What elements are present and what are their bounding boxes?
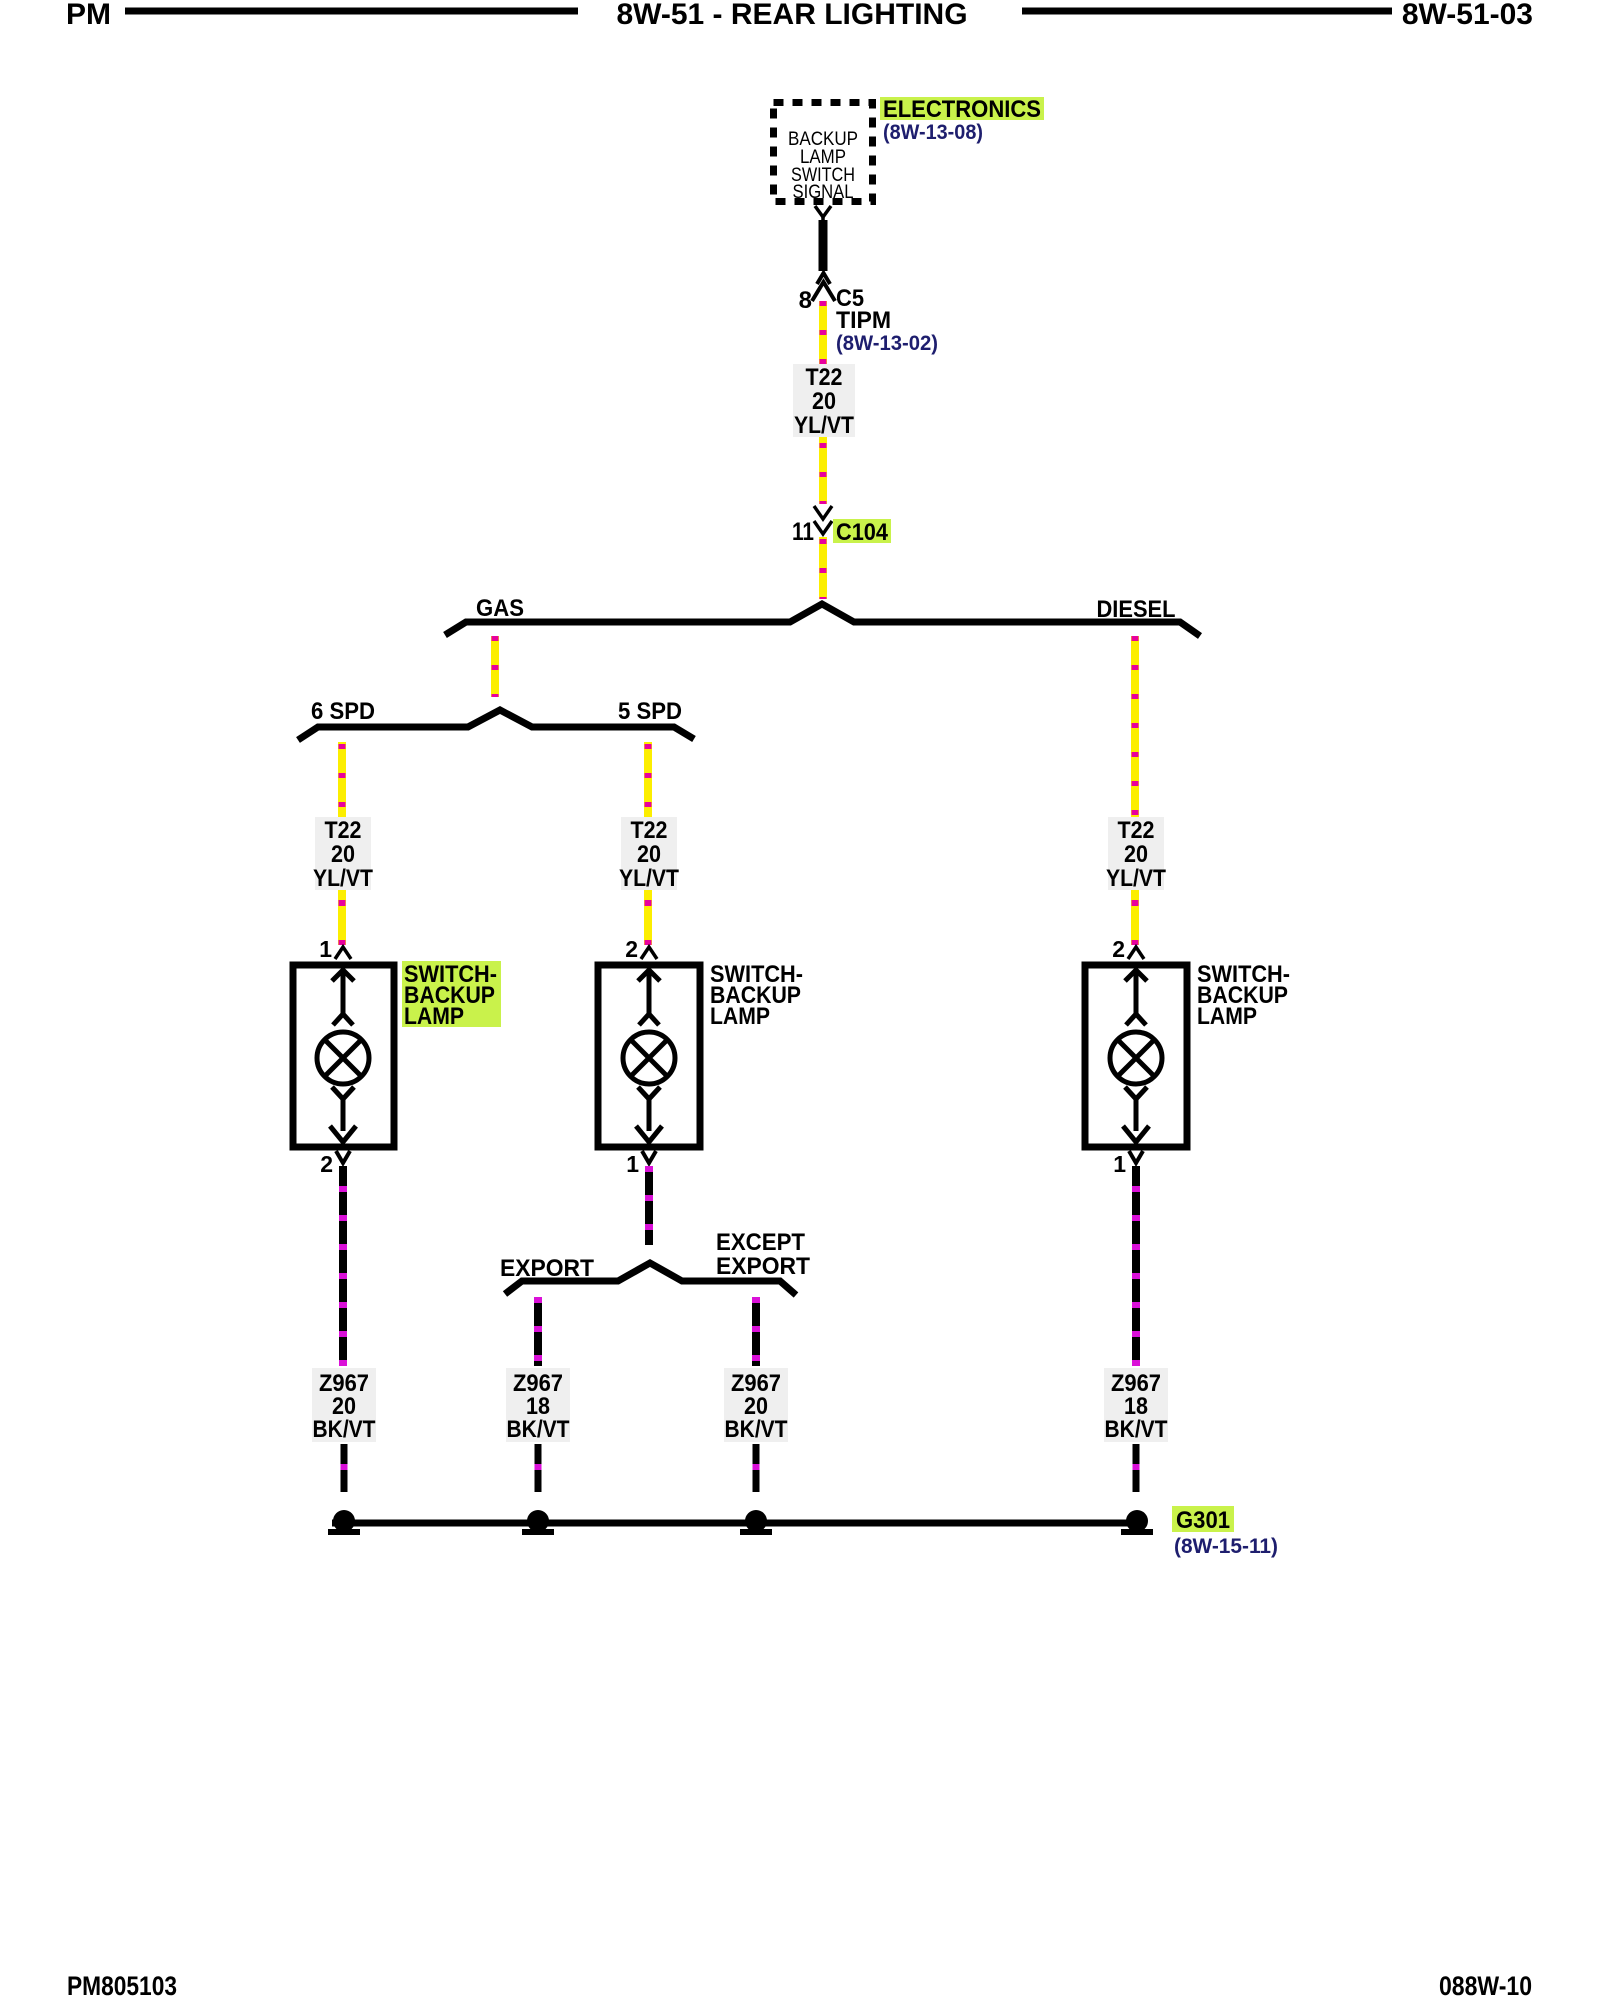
wire BK/VT from left lamp down xyxy=(339,1166,347,1366)
svg-text:ELECTRONICS: ELECTRONICS xyxy=(883,96,1041,123)
svg-text:GAS: GAS xyxy=(476,595,524,622)
svg-text:8W-51 - REAR LIGHTING: 8W-51 - REAR LIGHTING xyxy=(616,0,967,31)
wire YL/VT into left lamp xyxy=(338,890,346,945)
wire label Z967 20 BK/VT (except export) xyxy=(724,1368,788,1443)
svg-text:PM805103: PM805103 xyxy=(67,1971,177,2000)
pin chevron right lamp xyxy=(1128,947,1144,959)
svg-text:BK/VT: BK/VT xyxy=(1105,1416,1168,1443)
pin chevron left lamp xyxy=(335,947,351,959)
wire YL/VT diesel drop xyxy=(1131,636,1139,817)
EXPORT / EXCEPT EXPORT branch bus xyxy=(505,1263,796,1295)
svg-text:(8W-13-08): (8W-13-08) xyxy=(883,121,983,144)
ground junction export xyxy=(522,1510,554,1535)
wire label T22 20 YL/VT (6 spd) xyxy=(313,817,373,892)
svg-text:T22: T22 xyxy=(631,817,668,844)
lamp box middle (switch-backup lamp 5spd) xyxy=(598,965,700,1147)
pin chevron below left lamp xyxy=(336,1151,350,1163)
svg-text:20: 20 xyxy=(812,388,836,415)
wire BK/VT except-export drop xyxy=(752,1297,760,1366)
svg-text:YL/VT: YL/VT xyxy=(794,412,854,439)
svg-text:EXPORT: EXPORT xyxy=(716,1253,810,1280)
6 SPD / 5 SPD branch bus xyxy=(298,710,694,740)
svg-text:DIESEL: DIESEL xyxy=(1097,596,1176,623)
label ELECTRONICS (highlighted) xyxy=(880,96,1044,123)
dashed component box BACKUP LAMP SWITCH SIGNAL xyxy=(774,103,873,204)
wire label Z967 20 BK/VT (left) xyxy=(312,1368,376,1443)
svg-text:G301: G301 xyxy=(1176,1507,1230,1534)
wire YL/VT 5spd drop xyxy=(644,742,652,817)
svg-text:6 SPD: 6 SPD xyxy=(311,698,375,725)
wire BK/VT from right lamp down xyxy=(1132,1166,1140,1366)
wire label Z967 18 BK/VT (export) xyxy=(506,1368,570,1443)
wire label T22 20 YL/VT (diesel) xyxy=(1106,817,1166,892)
svg-text:LAMP: LAMP xyxy=(404,1003,464,1030)
wire BK/VT diesel to ground xyxy=(1133,1444,1140,1492)
wire YL/VT from C5 to label xyxy=(819,301,827,365)
svg-text:1: 1 xyxy=(1113,1151,1126,1177)
wire BK/VT from middle lamp down xyxy=(645,1166,653,1245)
ground junction left xyxy=(328,1510,360,1535)
wire YL/VT gas drop xyxy=(491,636,499,697)
wire label T22 20 YL/VT (5 spd) xyxy=(619,817,679,892)
svg-text:BK/VT: BK/VT xyxy=(313,1416,376,1443)
svg-text:LAMP: LAMP xyxy=(1197,1003,1257,1030)
header rule right xyxy=(1022,8,1392,15)
wire label T22 20 YL/VT xyxy=(793,364,855,439)
svg-text:EXPORT: EXPORT xyxy=(500,1255,594,1282)
lamp box right (switch-backup lamp diesel) xyxy=(1085,965,1187,1147)
svg-text:1: 1 xyxy=(626,1151,639,1177)
pin chevron middle lamp xyxy=(641,947,657,959)
svg-text:5 SPD: 5 SPD xyxy=(618,698,682,725)
svg-text:1: 1 xyxy=(319,936,332,962)
svg-text:BK/VT: BK/VT xyxy=(725,1416,788,1443)
svg-text:8W-51-03: 8W-51-03 xyxy=(1402,0,1533,31)
svg-text:2: 2 xyxy=(320,1151,333,1177)
svg-text:2: 2 xyxy=(625,936,638,962)
svg-text:YL/VT: YL/VT xyxy=(313,865,373,892)
connector name C104 (highlighted) xyxy=(833,519,891,546)
svg-text:11: 11 xyxy=(792,518,814,546)
ground bus G301 xyxy=(332,1520,1144,1527)
svg-text:(8W-13-02): (8W-13-02) xyxy=(836,332,938,355)
ground junction except-export xyxy=(740,1510,772,1535)
svg-text:088W-10: 088W-10 xyxy=(1439,1971,1532,2000)
wire label Z967 18 BK/VT (diesel) xyxy=(1104,1368,1168,1443)
svg-text:YL/VT: YL/VT xyxy=(1106,865,1166,892)
wire YL/VT from label to C104 xyxy=(819,437,827,504)
wire YL/VT from C104 to splice bus xyxy=(819,537,827,599)
svg-text:20: 20 xyxy=(1124,841,1148,868)
svg-text:SIGNAL: SIGNAL xyxy=(793,182,854,203)
svg-text:C104: C104 xyxy=(836,519,889,546)
svg-text:EXCEPT: EXCEPT xyxy=(716,1229,805,1256)
svg-text:BK/VT: BK/VT xyxy=(507,1416,570,1443)
wire YL/VT into right lamp xyxy=(1131,890,1139,945)
svg-text:PM: PM xyxy=(66,0,111,31)
header rule left xyxy=(125,8,578,15)
ground name G301 (highlighted) xyxy=(1172,1506,1234,1534)
wire BK/VT export to ground xyxy=(535,1444,542,1492)
label SWITCH-BACKUP LAMP (middle) xyxy=(710,961,803,1030)
wire BK/VT export drop xyxy=(534,1297,542,1366)
lamp box left (switch-backup lamp 6spd) xyxy=(293,965,394,1147)
label SWITCH-BACKUP LAMP (right) xyxy=(1197,961,1290,1030)
svg-text:TIPM: TIPM xyxy=(836,307,891,334)
wire BK/VT left to ground xyxy=(341,1444,348,1492)
svg-text:T22: T22 xyxy=(1118,817,1155,844)
svg-text:YL/VT: YL/VT xyxy=(619,865,679,892)
svg-text:(8W-15-11): (8W-15-11) xyxy=(1174,1535,1278,1558)
ground junction diesel xyxy=(1121,1510,1153,1535)
connector C5 chevrons xyxy=(812,273,835,301)
svg-text:2: 2 xyxy=(1112,936,1125,962)
connector C104 chevrons xyxy=(814,506,832,534)
pin chevron below right lamp xyxy=(1129,1151,1143,1163)
wire thick black from dashed box to C5 xyxy=(819,220,828,271)
svg-text:8: 8 xyxy=(799,287,812,314)
branch label EXCEPT EXPORT xyxy=(716,1229,810,1280)
svg-text:T22: T22 xyxy=(806,364,843,391)
wire YL/VT 6spd drop xyxy=(338,742,346,817)
svg-text:20: 20 xyxy=(637,841,661,868)
wire YL/VT into middle lamp xyxy=(644,890,652,945)
wire BK/VT except-export to ground xyxy=(753,1444,760,1492)
GAS / DIESEL branch bus xyxy=(445,604,1200,636)
pin chevron below middle lamp xyxy=(642,1151,656,1163)
label SWITCH-BACKUP LAMP (highlighted) xyxy=(402,961,501,1030)
svg-text:T22: T22 xyxy=(325,817,362,844)
connector Y below dashed box xyxy=(815,206,831,222)
svg-text:LAMP: LAMP xyxy=(710,1003,770,1030)
svg-text:20: 20 xyxy=(331,841,355,868)
